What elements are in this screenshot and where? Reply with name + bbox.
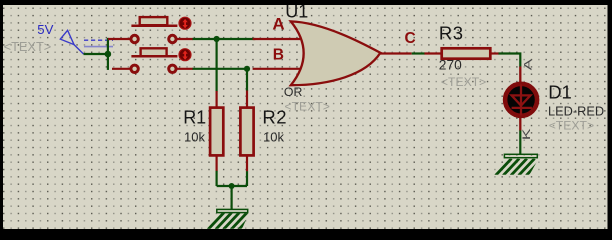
svg-text:A: A [522, 59, 535, 71]
button SW2 pins [112, 68, 193, 70]
svg-text:C: C [405, 30, 416, 47]
junction node A [214, 36, 220, 42]
junction ground node [229, 183, 235, 189]
ground (LED) [496, 154, 543, 175]
svg-text:R1: R1 [183, 108, 206, 128]
wire R3 to D1 [499, 54, 521, 67]
svg-text:5V: 5V [37, 22, 53, 37]
junction 5V node [105, 51, 112, 58]
resistor R3 [442, 48, 491, 58]
wire net B [193, 68, 250, 70]
or-gate U1 output pin [380, 52, 412, 54]
svg-text:<TEXT>: <TEXT> [441, 75, 486, 89]
svg-text:B: B [273, 46, 284, 63]
junction node B [244, 66, 250, 72]
svg-text:10k: 10k [184, 129, 205, 144]
wire junction to ground [231, 186, 233, 210]
wire node A to R1 [216, 39, 218, 92]
button SW1 pins [108, 38, 193, 40]
svg-text:<TEXT>: <TEXT> [549, 119, 594, 133]
button SW1 [131, 17, 177, 43]
or-gate U1 input pins [253, 39, 300, 69]
svg-text:R3: R3 [439, 23, 464, 44]
button SW2 [131, 48, 177, 72]
wire net A [193, 38, 256, 40]
button SW1 actuator indicator [179, 17, 191, 29]
svg-text:K: K [521, 128, 533, 140]
svg-text:<TEXT>: <TEXT> [285, 100, 330, 114]
svg-text:10k: 10k [263, 129, 284, 144]
led D1 anode pin [519, 67, 521, 84]
power terminal 5V [60, 30, 113, 54]
svg-text:R2: R2 [262, 107, 287, 128]
or-gate U1 body [291, 21, 381, 85]
wire joining R1 R2 bottoms [217, 185, 247, 187]
wire 5V horizontal [84, 53, 108, 55]
wire R1 to ground node [216, 171, 218, 186]
wire node B to R2 [246, 69, 248, 91]
svg-text:A: A [272, 14, 284, 33]
svg-text:OR: OR [284, 85, 303, 99]
ground (R1 R2) [208, 209, 255, 229]
led D1 [505, 84, 537, 116]
wire net C [412, 52, 425, 54]
svg-text:<TEXT>: <TEXT> [4, 39, 52, 54]
resistor R3 pins [424, 52, 499, 54]
resistor R2 pins [246, 91, 248, 172]
wire D1 to ground [519, 130, 521, 154]
resistor R1 pins [216, 91, 218, 171]
svg-text:270: 270 [439, 58, 462, 73]
led D1 cathode pin [519, 117, 521, 131]
wire 5V vertical to buttons [107, 38, 109, 70]
svg-text:LED-RED: LED-RED [548, 104, 604, 119]
svg-text:D1: D1 [548, 82, 572, 103]
button SW2 actuator indicator [179, 49, 191, 61]
resistor R1 [210, 108, 223, 156]
resistor R2 [240, 108, 253, 156]
wire R2 to ground node [246, 171, 248, 186]
